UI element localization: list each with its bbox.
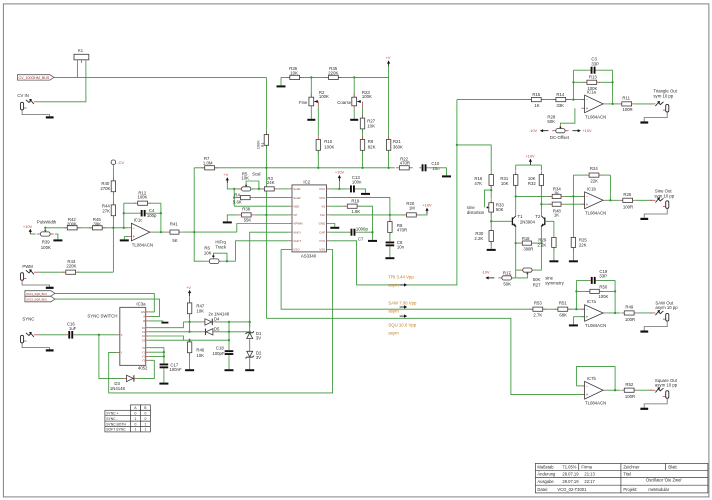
svg-text:71.05%: 71.05% bbox=[562, 464, 576, 469]
svg-text:TL084ACN: TL084ACN bbox=[585, 401, 606, 406]
svg-text:22K: 22K bbox=[590, 178, 598, 183]
IC3a pin Y (left) bbox=[117, 351, 120, 353]
svg-text:asym: asym bbox=[388, 308, 399, 313]
wire R47 to D4 row bbox=[189, 314, 191, 322]
svg-text:VSO: VSO bbox=[293, 248, 300, 252]
svg-text:VS: VS bbox=[321, 204, 325, 208]
svg-text:+V: +V bbox=[223, 172, 228, 177]
wire R4 to Scal2 bbox=[254, 197, 289, 199]
svg-text:TL084ACN: TL084ACN bbox=[585, 114, 606, 119]
svg-text:VHFT: VHFT bbox=[293, 239, 301, 243]
svg-text:100K: 100K bbox=[598, 294, 608, 299]
wire R20 to +10V arrow bbox=[418, 213, 427, 215]
junction feedback left column IC1a bbox=[572, 98, 574, 100]
wire R33 wiper loop bbox=[484, 190, 491, 207]
junction VFO XLF bbox=[389, 214, 391, 216]
svg-text:27K: 27K bbox=[102, 209, 110, 214]
ground at IC1c + input bbox=[124, 235, 128, 237]
svg-text:360K: 360K bbox=[393, 144, 403, 149]
wire VFO to R8 column bbox=[330, 198, 390, 222]
svg-text:10n: 10n bbox=[397, 245, 405, 250]
ground at IC7a + input bbox=[573, 316, 584, 318]
wire R29 to ground bbox=[553, 247, 555, 260]
wire CAP row to C7 bbox=[330, 231, 349, 233]
svg-text:R18: R18 bbox=[522, 236, 530, 241]
svg-text:PWM: PWM bbox=[22, 264, 33, 269]
svg-text:1000p: 1000p bbox=[356, 226, 369, 231]
wire R31 to T1 collector bbox=[515, 185, 517, 216]
svg-text:270K: 270K bbox=[100, 186, 110, 191]
wire VS row to R19 bbox=[330, 205, 346, 207]
svg-text:R51: R51 bbox=[559, 301, 567, 306]
wire R5 to R3 bbox=[251, 188, 265, 190]
wire +10V to VCC row bbox=[338, 181, 340, 189]
svg-text:X: X bbox=[121, 333, 123, 337]
svg-text:-10V: -10V bbox=[481, 269, 490, 274]
wire C10 to ground bbox=[429, 168, 447, 176]
svg-text:asym: asym bbox=[388, 282, 399, 287]
svg-text:VSS: VSS bbox=[319, 248, 325, 252]
wire D3 to Y3 column bbox=[138, 360, 154, 378]
svg-text:IC2: IC2 bbox=[303, 179, 310, 184]
svg-text:SYNC: SYNC bbox=[22, 316, 34, 321]
wire PulsWidth row bbox=[45, 227, 128, 229]
svg-text:R49: R49 bbox=[625, 305, 633, 310]
svg-text:33K: 33K bbox=[556, 103, 564, 108]
svg-text:DC-Offset: DC-Offset bbox=[550, 135, 570, 140]
svg-text:SYNC BOTH: SYNC BOTH bbox=[106, 422, 126, 426]
wire R27 to R9 bbox=[362, 129, 364, 140]
wire R18 row bbox=[516, 242, 521, 244]
wire R44 to PulsWidth row bbox=[112, 216, 114, 228]
IC3a pin B bbox=[146, 320, 149, 322]
svg-text:Scal: Scal bbox=[252, 172, 260, 177]
IC2 pin GND (right) bbox=[327, 223, 330, 225]
wire IC1c output row bbox=[153, 231, 166, 233]
svg-text:100K: 100K bbox=[41, 245, 51, 250]
IC2 pin VSO (left) bbox=[289, 248, 292, 250]
svg-text:SYNC SWITCH: SYNC SWITCH bbox=[87, 313, 117, 318]
wire R36 row to R21 column bbox=[281, 76, 389, 78]
junction R33 wiper bbox=[490, 189, 492, 191]
svg-text:100nF: 100nF bbox=[169, 367, 182, 372]
wire +V column to R4 and VEE bbox=[233, 189, 235, 206]
wire SAW column and row bbox=[281, 250, 531, 310]
IC2 pin VS (right) bbox=[327, 205, 330, 207]
svg-text:Y2: Y2 bbox=[142, 355, 146, 359]
wire to Fine pot bbox=[310, 77, 312, 97]
wire R48 to + input bbox=[564, 203, 584, 205]
svg-text:R11: R11 bbox=[622, 96, 630, 101]
wire VPWM bend bbox=[237, 224, 289, 233]
svg-text:100p: 100p bbox=[147, 213, 157, 218]
wire R43 to feedback column bbox=[77, 271, 113, 273]
svg-text:-CV: -CV bbox=[117, 160, 124, 165]
svg-text:100K: 100K bbox=[362, 94, 372, 99]
IC3a pin Y0 bbox=[146, 347, 149, 349]
wire C18 column bbox=[228, 322, 230, 349]
svg-text:1: 1 bbox=[144, 422, 146, 426]
wire C17 to ground bbox=[163, 371, 165, 383]
svg-text:T2: T2 bbox=[535, 214, 541, 219]
wire rail to R32 bbox=[540, 165, 542, 171]
wire flag1 to EN bbox=[55, 293, 154, 312]
svg-text:VCC: VCC bbox=[319, 187, 326, 191]
IC3a pin X3 bbox=[146, 339, 149, 341]
svg-text:SAW 7.00 Vpp: SAW 7.00 Vpp bbox=[388, 300, 417, 305]
feedback R12 C4 loop bbox=[123, 203, 125, 228]
svg-text:50K: 50K bbox=[533, 277, 541, 282]
wire SYNC jack to C16 bbox=[39, 334, 66, 336]
svg-text:Projekt:: Projekt: bbox=[623, 487, 637, 492]
svg-text:+10V: +10V bbox=[335, 170, 345, 175]
svg-text:22K: 22K bbox=[579, 243, 587, 248]
IC2 pin VFO (right) bbox=[327, 197, 330, 199]
svg-text:10K: 10K bbox=[204, 251, 212, 256]
svg-text:R24: R24 bbox=[590, 166, 598, 171]
svg-text:SYNC -: SYNC - bbox=[106, 417, 118, 421]
svg-text:Ausgabe: Ausgabe bbox=[537, 479, 554, 484]
wire R16 to R33 bbox=[490, 185, 492, 198]
wire rail to R31 bbox=[515, 165, 517, 171]
svg-text:470R: 470R bbox=[397, 228, 407, 233]
svg-text:3V: 3V bbox=[256, 355, 261, 360]
IC2 pin VCC (right) bbox=[327, 188, 330, 190]
svg-text:100K: 100K bbox=[319, 94, 329, 99]
svg-text:sym 10 pp: sym 10 pp bbox=[653, 93, 673, 98]
svg-text:CV_100OHM_BUS: CV_100OHM_BUS bbox=[19, 76, 50, 80]
svg-text:VHGI: VHGI bbox=[293, 230, 301, 234]
wire R3 to Scal1 bbox=[278, 188, 289, 190]
IC3a pin A bbox=[146, 315, 149, 317]
svg-text:IC1b: IC1b bbox=[587, 186, 597, 191]
svg-text:R27: R27 bbox=[533, 282, 541, 287]
junction R5 row bbox=[233, 188, 235, 190]
svg-text:+10V: +10V bbox=[422, 203, 432, 208]
svg-text:0: 0 bbox=[134, 422, 136, 426]
svg-text:28.07.19: 28.07.19 bbox=[562, 472, 579, 477]
wire X0 step bbox=[149, 322, 184, 328]
svg-text:SYNC +: SYNC + bbox=[106, 412, 118, 416]
svg-text:24K: 24K bbox=[267, 180, 275, 185]
svg-text:5K: 5K bbox=[172, 238, 177, 243]
wire R40 to R44 bbox=[112, 192, 114, 205]
svg-text:Scal2: Scal2 bbox=[293, 196, 301, 200]
svg-text:R32: R32 bbox=[528, 181, 536, 186]
feedback right column bbox=[160, 203, 162, 232]
svg-text:SQU 10.0 Vpp: SQU 10.0 Vpp bbox=[388, 323, 416, 328]
feedback right column IC1a bbox=[612, 70, 614, 104]
wire R27 wiper to R17 bbox=[516, 273, 528, 278]
svg-text:Firma: Firma bbox=[581, 464, 592, 469]
wire C8 to ground bbox=[389, 249, 391, 258]
wire R25 to ground bbox=[572, 247, 574, 260]
junction R1 main row bbox=[265, 167, 267, 169]
svg-text:82K: 82K bbox=[368, 144, 376, 149]
wire VHFT row to R6 right lead bbox=[236, 241, 289, 261]
svg-text:K1: K1 bbox=[78, 48, 84, 53]
junction C4 row bbox=[123, 212, 125, 214]
wires Y0 Y1 Y2 to C17 bbox=[149, 348, 164, 363]
junction feedback column bbox=[123, 227, 125, 229]
svg-text:50K: 50K bbox=[496, 207, 504, 212]
junction TRI to sine input bbox=[456, 144, 458, 146]
net flag CV_100OHM_BUS bbox=[17, 75, 54, 80]
ground at pin B bbox=[149, 320, 163, 323]
wire +V to R5 row bbox=[227, 183, 234, 189]
svg-text:VTO: VTO bbox=[319, 239, 326, 243]
junction D4 VHGI column bbox=[249, 321, 251, 323]
svg-text:PulsWidth: PulsWidth bbox=[37, 219, 57, 224]
junction sync node bbox=[98, 334, 100, 336]
wire +V to R47 bbox=[189, 296, 191, 303]
wire T1 emitter down bbox=[515, 226, 517, 243]
IC3a pin Y2 bbox=[146, 355, 149, 357]
wire IC7b - input bbox=[576, 385, 584, 387]
svg-text:Datei:: Datei: bbox=[537, 487, 548, 492]
svg-text:1K: 1K bbox=[534, 103, 539, 108]
net flag OSC2 bus bbox=[25, 296, 55, 301]
wire emitter columns to R27 pot bbox=[515, 243, 517, 278]
IC2 pin VHGI (left) bbox=[289, 231, 292, 233]
svg-text:R41: R41 bbox=[170, 221, 178, 226]
svg-text:10K: 10K bbox=[196, 309, 204, 314]
main row wire R7 to R22 bbox=[194, 167, 395, 169]
wire R51 to IC7a bbox=[567, 308, 584, 310]
wire R17 to junction bbox=[512, 277, 516, 279]
svg-text:R19: R19 bbox=[351, 198, 359, 203]
wire VEE row bbox=[234, 205, 289, 207]
svg-text:IC3a: IC3a bbox=[136, 301, 146, 306]
svg-text:Maßstab: Maßstab bbox=[537, 464, 554, 469]
wire +10V to R39 bbox=[30, 233, 35, 235]
svg-text:29.07.19: 29.07.19 bbox=[562, 479, 579, 484]
wire R46 to ground bbox=[189, 353, 191, 370]
svg-text:+10V: +10V bbox=[525, 154, 535, 159]
svg-text:C7: C7 bbox=[358, 237, 364, 242]
wire R48 row bbox=[541, 203, 551, 205]
wire Coarse wiper to R27 bbox=[362, 102, 364, 108]
svg-text:X0: X0 bbox=[142, 326, 146, 330]
svg-text:100pF: 100pF bbox=[212, 351, 225, 356]
junction R7 column bbox=[193, 231, 195, 233]
wire R5 row bbox=[234, 188, 241, 190]
svg-text:meModular: meModular bbox=[648, 487, 669, 492]
wire R39 to ground bbox=[55, 234, 58, 239]
svg-text:Track: Track bbox=[215, 245, 226, 250]
IC3a pin X2 bbox=[146, 335, 149, 337]
svg-text:TL084ACN: TL084ACN bbox=[132, 243, 153, 248]
R6 wiper loop bbox=[213, 253, 227, 261]
svg-text:IC7b: IC7b bbox=[587, 376, 597, 381]
wire SQU column x266 bbox=[265, 168, 267, 318]
svg-text:1.0M: 1.0M bbox=[203, 161, 213, 166]
svg-text:Oscillator 'Die Zwei': Oscillator 'Die Zwei' bbox=[646, 477, 682, 482]
svg-text:0: 0 bbox=[144, 417, 146, 421]
svg-text:R50: R50 bbox=[599, 285, 607, 290]
wire K1 pin1 to bus bbox=[76, 63, 78, 78]
svg-text:CAP: CAP bbox=[319, 230, 325, 234]
wire sine input row bbox=[457, 145, 491, 171]
wire IC7a output bbox=[606, 312, 620, 314]
wire R32 to T2 collector bbox=[540, 185, 542, 216]
svg-text:D4: D4 bbox=[214, 316, 220, 321]
svg-text:X1: X1 bbox=[142, 330, 146, 334]
svg-text:1uF: 1uF bbox=[69, 326, 77, 331]
svg-text:Scal1: Scal1 bbox=[293, 187, 301, 191]
supply -CV circle bbox=[111, 160, 116, 165]
wire K1 pin3 to CV IN row bbox=[39, 63, 86, 102]
svg-text:2.7K: 2.7K bbox=[533, 313, 542, 318]
svg-text:TL084ACN: TL084ACN bbox=[585, 323, 606, 328]
svg-text:2.2K: 2.2K bbox=[537, 243, 546, 248]
svg-text:470R: 470R bbox=[400, 161, 410, 166]
svg-text:1M: 1M bbox=[409, 206, 415, 211]
op-amp IC7b bbox=[582, 385, 585, 387]
wire DC offset row from TRI column bbox=[456, 99, 458, 101]
IC3a pin X1 bbox=[146, 331, 149, 333]
junction D5 C18 bbox=[228, 331, 230, 333]
wire C16 to X pin bbox=[76, 334, 117, 336]
svg-text:IC1c: IC1c bbox=[134, 218, 144, 223]
IC3a pin X (left) bbox=[117, 334, 120, 336]
svg-text:1.8K: 1.8K bbox=[351, 209, 360, 214]
svg-text:AS3340: AS3340 bbox=[301, 253, 317, 258]
svg-text:Coarse: Coarse bbox=[337, 100, 351, 105]
svg-text:3V: 3V bbox=[256, 336, 261, 341]
junction T1 base row bbox=[490, 220, 492, 222]
svg-text:100K: 100K bbox=[255, 140, 260, 149]
svg-text:47K: 47K bbox=[474, 181, 482, 186]
IC2 AS3340 box bbox=[292, 185, 327, 252]
svg-text:1: 1 bbox=[134, 428, 136, 432]
svg-text:EN: EN bbox=[141, 310, 145, 314]
svg-text:distortion: distortion bbox=[467, 210, 485, 215]
wire IC1b output bbox=[606, 199, 620, 201]
svg-text:10K: 10K bbox=[367, 124, 375, 129]
svg-text:R15: R15 bbox=[532, 92, 540, 97]
wire VTO to TRI route bbox=[330, 100, 457, 285]
svg-text:100R: 100R bbox=[622, 107, 632, 112]
svg-text:R53: R53 bbox=[534, 301, 542, 306]
svg-text:Blatt: Blatt bbox=[668, 464, 677, 469]
svg-text:1K: 1K bbox=[554, 213, 559, 218]
svg-text:asym 10 pp: asym 10 pp bbox=[655, 305, 678, 310]
svg-text:33P: 33P bbox=[599, 274, 607, 279]
svg-text:VEE: VEE bbox=[293, 204, 299, 208]
IC2 pin Scal2 (left) bbox=[289, 197, 292, 199]
svg-text:OSC1_SQR_BUS: OSC1_SQR_BUS bbox=[26, 292, 47, 296]
wire sync node to D3 row bbox=[99, 335, 123, 379]
wire D2 to ground bbox=[249, 357, 251, 369]
svg-text:+10V: +10V bbox=[582, 128, 592, 133]
wire R1 to main row bbox=[265, 145, 267, 168]
wire to Coarse pot bbox=[353, 77, 355, 97]
svg-text:asym: asym bbox=[388, 331, 399, 336]
wire VHGI row and clamp column bbox=[250, 232, 289, 327]
svg-text:68K: 68K bbox=[559, 313, 567, 318]
ground below Coarse pot bbox=[353, 109, 355, 119]
IC3a pin EN bbox=[146, 311, 149, 313]
svg-text:VFO: VFO bbox=[319, 196, 326, 200]
svg-text:21:13: 21:13 bbox=[584, 472, 595, 477]
svg-text:10K: 10K bbox=[501, 181, 509, 186]
junction R34 row bbox=[515, 195, 517, 197]
IC2 pin XLF (right) bbox=[327, 214, 330, 216]
wire R38 to ground bbox=[227, 215, 238, 222]
svg-text:390R: 390R bbox=[523, 247, 533, 252]
wire IC7b output bbox=[606, 389, 620, 391]
wire +V to bus and R21 bbox=[388, 66, 390, 139]
svg-text:10n: 10n bbox=[432, 166, 440, 171]
svg-text:IC1a: IC1a bbox=[587, 90, 597, 95]
wire X3 row to R46 bbox=[189, 340, 191, 342]
wire R30 to ground bbox=[490, 241, 492, 249]
IC3a box 4052 bbox=[120, 307, 146, 365]
IC3a pin Y1 bbox=[146, 351, 149, 353]
svg-text:100R: 100R bbox=[625, 317, 635, 322]
svg-text:22:17: 22:17 bbox=[584, 479, 595, 484]
wire R47 column to D5 row bbox=[189, 322, 191, 332]
svg-text:+V: +V bbox=[386, 55, 391, 60]
svg-text:X3: X3 bbox=[142, 338, 146, 342]
svg-text:VCO_02-T3001: VCO_02-T3001 bbox=[557, 487, 587, 492]
wire VSO row bbox=[281, 249, 289, 251]
IC2 pin VHFT (left) bbox=[289, 240, 292, 242]
wire X2 step to X3 row bbox=[149, 336, 184, 340]
svg-text:0: 0 bbox=[144, 412, 146, 416]
net flag OSC1 bus bbox=[25, 291, 55, 296]
title block table bbox=[535, 463, 708, 493]
wire -CV to R40 bbox=[112, 167, 114, 181]
svg-text:R4: R4 bbox=[234, 192, 240, 197]
svg-text:Y: Y bbox=[121, 351, 123, 355]
connector K1 bbox=[74, 54, 89, 60]
wire R13 row bbox=[573, 81, 585, 83]
IC2 pin VP (left) bbox=[289, 214, 292, 216]
svg-text:10K: 10K bbox=[241, 176, 249, 181]
svg-text:OSC2_SQR_BUS: OSC2_SQR_BUS bbox=[26, 298, 47, 302]
svg-text:1: 1 bbox=[144, 428, 146, 432]
svg-text:R13: R13 bbox=[589, 75, 597, 80]
svg-text:-10V: -10V bbox=[529, 128, 538, 133]
svg-text:100K: 100K bbox=[324, 144, 334, 149]
junction R50 row bbox=[575, 290, 577, 292]
wire Fine wiper to R10 bbox=[317, 102, 319, 108]
junction R9 main row bbox=[361, 167, 363, 169]
ground below Fine pot bbox=[310, 109, 312, 119]
feedback loop IC7b direct bbox=[575, 366, 577, 386]
svg-text:TL084ACN: TL084ACN bbox=[585, 210, 606, 215]
wire C13 to ground bbox=[357, 189, 365, 193]
svg-text:2N3904: 2N3904 bbox=[520, 219, 536, 224]
wire sine rail bbox=[516, 164, 542, 166]
wire D4 row bbox=[183, 321, 201, 323]
svg-text:100R: 100R bbox=[625, 394, 635, 399]
svg-text:Titel: Titel bbox=[623, 472, 631, 477]
junction R13 row bbox=[572, 81, 574, 83]
wire R8 to C8 bbox=[389, 232, 391, 240]
op-amp IC1b bbox=[582, 195, 585, 197]
junction IC1b feedback bbox=[572, 195, 574, 197]
svg-text:VP: VP bbox=[293, 213, 297, 217]
svg-text:CV IN: CV IN bbox=[17, 93, 28, 98]
wire GND pin to ground bbox=[330, 224, 335, 227]
op-amp IC1c bbox=[128, 227, 131, 229]
junction Fine column bbox=[310, 76, 312, 78]
junction IC7a feedback bbox=[575, 308, 577, 310]
wire IC1a output bbox=[606, 103, 619, 105]
